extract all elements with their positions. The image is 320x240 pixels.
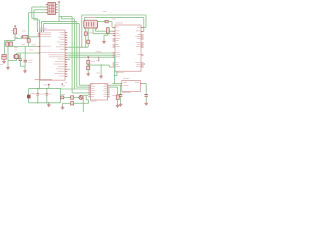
resistor R usb1 [84,32,87,35]
IC4 pin out [140,82,142,84]
IC1 right pin label 16 [56,67,65,70]
junction [37,102,38,103]
IC2 left pin label 7 [116,43,119,46]
wire x4.5 down [4,41,6,55]
IC2 left pin label 12 [116,61,119,64]
wire C6 bottom [24,62,26,66]
wire y38.5 [15,38,21,40]
ground mid [99,75,103,78]
wire y19.9 [34,19,40,21]
IC1 right pin 1 [65,32,67,34]
stub C7 bottom [19,61,21,67]
label IC1 name [40,27,47,30]
wire S1 rail [5,40,15,42]
resistor R usb2 [87,40,90,43]
IC2 right pin label 9 [137,53,140,56]
bus wire y18.8 [62,18,75,20]
SV1 pin right 2 [55,6,57,8]
wire XTAL2 y53 [17,52,38,54]
label capacitor PC2 left [42,93,45,96]
ground R branch [116,104,120,107]
wire usb D- right [93,33,113,35]
wire R1 down [14,34,16,39]
label IC4 name [123,77,129,80]
IC2 left pin 1 [113,26,115,28]
IC1 left pin XTAL2 [38,52,40,54]
IC1 left pin label 3 [41,35,51,38]
stub [107,26,109,28]
IC3 left pin label 3 [91,87,94,90]
wire usb1 down to bus [85,35,87,47]
IC3 right pin 1 [108,84,110,86]
IC2 left pin 8 [113,46,115,48]
switch S1a [6,42,9,46]
IC2 right pin label 1 [137,26,140,29]
label IC4 inside2 [123,84,128,87]
capacitor PC1 wire bottom [37,95,39,103]
IC2 right pin 6 [141,42,144,44]
power loop left top [28,89,30,95]
net label 1 [21,43,24,46]
IC1 right pin label 7 [56,45,65,48]
junction [28,36,29,37]
IC2 left pin 12 [113,62,115,64]
ground S1b [6,66,10,69]
IC2 right pin 3 [141,34,144,36]
label vcc loop [44,84,48,87]
SV1 pin left 0 [46,3,48,5]
vcc symbol above SV1 [58,1,60,3]
junction [114,83,115,84]
wire x21.5 short [21,37,23,39]
wire IC3 to reg pin2 [110,84,120,86]
IC3 right pin label 5 [104,91,107,94]
wire ICSP pin2 left [34,9,46,11]
wire down [100,65,102,75]
label C7 [28,59,32,62]
IC1 right pin label 15 [58,65,65,68]
IC2 right pin label 6 [136,41,140,44]
ground led [61,106,65,109]
IC3 left pin 6 [88,94,90,96]
IC1 right pin 16 [65,68,67,70]
label +5V net [61,85,65,88]
IC1 right pin label 13 [55,60,65,63]
IC2 right pin label 11 [137,63,141,66]
wire usb2 down [87,43,89,47]
IC3 left pin 7 [88,96,90,98]
bus wire y23.6 [44,23,80,25]
wire +5V to IC3 [60,88,90,90]
IC1 left pin label 1 [41,31,51,34]
junction [81,47,82,48]
wire down x86.2 [85,95,87,100]
capacitor PC1 [36,93,39,95]
wire LED right [82,96,84,98]
resistor R led2 [71,102,74,105]
IC2 right pin label 5 [137,37,141,40]
wire between diodes [87,64,89,66]
ground power loop [47,103,51,106]
junction [114,55,115,56]
label above USB [86,16,96,19]
wire long y57.2 [67,56,115,58]
diode D1 [27,95,30,98]
wire usb pin1 down [85,28,87,32]
usb loop to IC2 pin [144,27,146,29]
wire usb D+ right [96,30,113,32]
usb shell pin left [84,28,86,29]
IC2 right pin 9 [141,54,144,56]
label IC4 value [122,91,130,94]
wire y97.4 [64,96,72,98]
IC3 right pin label 3 [104,87,107,90]
IC2 left pin 2 [113,30,115,32]
SV1 pin left 1 [46,6,48,8]
junction [85,47,86,48]
IC3 left pin label 7 [91,95,94,98]
op IC4 regulator box [122,81,141,92]
wire below pullup [107,33,109,35]
IC2 left pin 14 [113,66,115,68]
wire ICSP pin3 left [29,12,46,14]
IC1 left pin XTAL1 [38,46,40,48]
usb connector X1 [84,20,98,28]
capacitor PC2 wire bottom [46,95,48,103]
wire to ground [62,103,64,105]
stub S1a top [6,41,8,43]
IC2 right pin 7 [141,44,144,46]
label capacitor PC1 left [33,93,36,96]
capacitor C out [145,95,148,97]
IC2 left pin label 11 [116,55,120,58]
wire up to IC2 [108,65,110,67]
IC2 right pin label 3 [137,33,140,36]
wire to ground [120,96,122,102]
IC3 left pin label 6 [91,93,95,96]
IC1 right pin label 10 [48,53,64,56]
IC2 left pin 9 [113,52,115,54]
bus vertical x79.3 [78,24,80,86]
usb loop inner right [143,18,145,32]
ground crystal [23,69,27,72]
capacitor PC1 wire top [37,89,39,94]
SV1 pin left 3 [46,12,48,14]
wire down to S1 rail [14,39,16,41]
net label RXD [96,50,102,53]
IC1 right pin 13 [65,61,67,63]
IC3 left pin 2 [88,86,90,88]
wire R2 left [21,36,24,38]
vcc above D2 [87,56,89,58]
label R [61,93,65,96]
IC3 left pin 3 [88,88,90,90]
wire link [115,75,117,77]
IC3 right pin 2 [108,86,110,88]
label IC2 name [115,22,123,25]
usb loop outer left [81,15,83,47]
IC2 left pin label 10 [116,53,121,56]
power loop top [29,88,61,90]
junction [100,64,101,65]
wire down to IC1 top pin 2 [43,24,45,30]
IC2 left pin label 8 [116,45,120,48]
junction [21,36,22,37]
wire usb D+ down [95,28,97,31]
wire reset x28.6 [28,13,30,39]
LED LED1 [79,95,83,99]
label vcc net [90,56,93,59]
wire down [3,57,5,59]
capacitor PC2 wire top [46,89,48,94]
IC3 left pin 5 [88,92,90,94]
label extra [96,59,99,62]
IC1 right pin label 6 [59,43,64,46]
IC3 left pin label 5 [91,91,94,94]
net label 2 [32,43,36,46]
wire +5V to reg pin1 [112,82,120,84]
label capacitor PC1 value [40,93,43,96]
wire to IC2 pin1 [111,26,114,28]
crystal Q1 [14,55,19,59]
IC2 right pin label 8 [136,45,141,48]
stub [59,96,61,98]
IC2 right pin 8 [141,46,144,48]
label R1 [11,29,13,32]
IC1 right pin 2 [65,34,67,36]
IC2 left pin 3 [113,33,115,35]
junction [48,102,49,103]
power loop bottom [29,102,61,104]
wire to R gnd branch [110,86,118,88]
IC3 left pin 4 [88,90,90,92]
wire long x39.4 [38,20,40,89]
wire down to IC2 [111,22,113,28]
IC1 right pin label 4 [60,38,65,41]
IC3 right pin label 4 [103,89,107,92]
IC2 left pin label 6 [116,39,119,42]
wire usb pin2 down [87,28,89,40]
IC1 right pin 10 [65,54,67,56]
IC1 right pin 9 [65,52,67,54]
label C7 value [28,61,31,64]
switch S1b [10,42,13,46]
wire y18.3 [32,17,38,19]
IC2 left pin label 13 [116,63,119,66]
bus vertical x74.6 [74,19,76,89]
net label VCC [103,10,106,13]
IC3 right pin label 7 [104,95,107,98]
wire SV1 VCC down [58,4,60,22]
wire to ground [7,61,9,66]
wire long y47.2 [67,46,88,48]
wire reg out [142,82,146,84]
wire down to IC1 top pin [41,21,43,30]
capacitor C in [119,95,122,97]
IC2 right pin 4 [141,36,144,38]
diode D2 [87,60,90,64]
junction [114,75,115,76]
wire down [103,35,105,40]
bus bottom y92.9 [72,92,90,94]
wire usb D- down [92,28,94,34]
IC2 right pin label 10 [135,61,140,64]
IC1 top pin stub b [41,30,43,32]
IC1 right pin label 17 [57,70,64,73]
ground S1a [2,60,6,63]
usb shell pin right [96,28,98,29]
wire TXD long [67,54,115,56]
usb loop inner left stub [83,18,85,21]
wire down to IC1 top [36,18,38,30]
IC3 left pin label 2 [91,85,95,88]
IC2 right pin 11 [141,64,144,66]
IC1 right pin 4 [65,39,67,41]
IC2 left pin label 2 [116,29,120,32]
bus wire y21.4 [42,20,77,22]
bus bottom y87.1 [77,86,91,88]
wire RXD long [67,52,115,54]
wire to ground [117,99,119,103]
resistor R2 [22,36,28,39]
junction [107,27,108,28]
resistor R gnd [116,95,119,99]
IC1 right pin 6 [65,44,67,46]
label gnd small [65,81,67,84]
capacitor C6 [24,60,27,62]
wire to ground [145,96,147,101]
IC2 right pin label 2 [136,30,141,33]
connector SV1 box [48,2,56,14]
junction [37,88,38,89]
IC1 right pin label 8 [60,48,65,51]
junction [58,21,59,22]
IC1 right pin 3 [65,37,67,39]
wire y99.8 [86,99,88,101]
IC1 left pin 2 [38,34,40,36]
IC3 right pin 7 [108,96,110,98]
IC1 right pin label 2 [60,33,64,36]
IC1 left pin 1 [38,32,40,34]
junction [88,64,89,65]
IC2 left pin label 14 [116,65,120,68]
power loop right [59,89,61,103]
IC1 right pin label 9 [48,51,64,54]
wire y65.1 [88,64,109,66]
IC1 right pin 18 [65,73,67,75]
IC1 right pin 7 [65,46,67,48]
wire x8 down [7,47,9,61]
junction [46,88,47,89]
capacitor C7 [19,59,22,61]
wire down to cap [145,83,147,94]
IC1 right pin 5 [65,41,67,43]
IC1 right pin label 3 [58,36,65,39]
capacitor PC2 [45,93,48,95]
IC2 left pin 5 [113,38,115,40]
junction [39,88,40,89]
wire x25.2 down [24,47,26,61]
bus wire y16.4 [59,15,72,17]
IC3 right pin 4 [108,90,110,92]
wire LED down long [82,95,84,112]
stub Q1 bottom [16,59,18,61]
label gnd net [96,72,100,75]
IC3 right pin label 2 [103,85,107,88]
net label vertical [97,57,100,62]
ground usb [102,40,106,43]
resistor R pullup [106,28,109,33]
ferrite L1 [105,20,108,23]
SV1 pin left 2 [46,9,48,11]
stub S1b top [10,41,12,43]
ground reg out [144,102,148,105]
stub ground loop [48,102,50,105]
IC2 right pin 5 [141,38,144,40]
IC1 right pin 12 [65,58,67,60]
resistor R led [71,96,74,99]
wire y95.3 to IC3 [83,94,88,96]
wire y103.3 left [63,102,71,104]
SV1 pin right 3 [55,9,57,11]
bus jog [61,16,63,18]
wire stub y59.3 [67,58,70,60]
IC3 left pin label 4 [91,89,95,92]
IC2 right pin 10 [141,62,144,64]
IC2 left pin 10 [113,54,115,56]
op IC1 box [40,30,65,80]
wire y66.2 [20,65,25,67]
wire IC2 loopback [143,63,145,65]
IC2 right pin 12 [141,66,144,68]
usb loop outer top [82,14,146,16]
SV1 pin right 1 [55,3,57,5]
label D2 [91,60,95,63]
IC2 left pin 4 [113,35,115,37]
op IC2 box [115,25,141,71]
wire to LED [74,96,79,98]
IC1 right pin label 12 [57,58,64,61]
junction [46,102,47,103]
wire to IC2 pin [109,66,112,68]
wire to ground [24,66,26,69]
IC2 left pin label 1 [116,26,119,29]
stub Q1 top [16,53,18,55]
IC1 left pin 3 [38,36,40,38]
wire x20.3 down [19,53,21,59]
wire IC2 bottom stub [116,71,118,75]
IC3 left pin 1 [88,84,90,86]
IC1 right pin 17 [65,71,67,73]
wire after ferrite [108,21,112,23]
label left edge [0,63,3,66]
ground usb cluster [86,72,90,75]
wire x88.6 down [88,100,90,104]
IC1 right pin label 14 [53,63,64,66]
label IC2 value [115,71,124,74]
IC4 pin gnd [120,84,122,86]
wire stub y69.2 [67,68,70,70]
vcc power loop [48,84,50,86]
IC1 top pin stub a [36,30,38,32]
IC2 right pin label 7 [137,43,140,46]
wire y103.3 right [74,102,89,104]
wire ICSP pin1 left [32,6,46,8]
wire XTAL1 y46.5 [7,46,38,48]
wire to ground [87,70,89,73]
IC2 right pin 1 [141,27,144,29]
vcc above R1 [14,25,16,27]
